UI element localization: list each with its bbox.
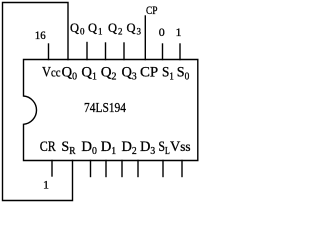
svg-text:D2: D2 xyxy=(122,139,137,157)
svg-text:CP: CP xyxy=(146,3,158,17)
pin Q2 stub xyxy=(105,43,107,60)
pin 1 CR stub xyxy=(51,161,53,177)
pin Q1 stub xyxy=(86,43,88,60)
pin 16 Vcc stub xyxy=(48,44,50,60)
svg-text:Q3: Q3 xyxy=(127,21,142,37)
svg-text:S0: S0 xyxy=(177,65,190,83)
wire feedback loop Q0 to SR xyxy=(3,3,73,201)
svg-text:Vcc: Vcc xyxy=(42,65,61,81)
svg-text:SR: SR xyxy=(61,139,76,157)
svg-text:D0: D0 xyxy=(81,139,97,157)
svg-text:S1: S1 xyxy=(162,65,174,83)
pin D1 stub xyxy=(105,161,107,177)
pin SL stub xyxy=(162,161,164,177)
wire CP clock input line xyxy=(144,16,146,60)
pin S0 stub xyxy=(179,44,181,60)
svg-text:1: 1 xyxy=(43,178,49,192)
svg-text:SL: SL xyxy=(158,139,170,157)
svg-text:CR: CR xyxy=(40,139,56,155)
pin Q3 stub xyxy=(123,43,125,60)
svg-text:D3: D3 xyxy=(140,139,155,157)
svg-text:CP: CP xyxy=(140,65,158,81)
svg-text:Q0: Q0 xyxy=(70,21,85,37)
svg-text:74LS194: 74LS194 xyxy=(84,101,126,116)
svg-text:Q3: Q3 xyxy=(122,65,137,83)
pin Vss stub xyxy=(181,161,183,177)
svg-text:D1: D1 xyxy=(101,139,117,157)
svg-text:Vss: Vss xyxy=(170,139,191,155)
svg-text:Q1: Q1 xyxy=(88,21,103,37)
pin D0 stub xyxy=(90,161,92,177)
svg-text:Q2: Q2 xyxy=(101,65,117,83)
svg-text:1: 1 xyxy=(176,25,182,39)
svg-text:Q0: Q0 xyxy=(62,65,78,83)
svg-text:16: 16 xyxy=(35,28,46,42)
pin S1 stub xyxy=(162,44,164,60)
pin D3 stub xyxy=(137,161,139,177)
pin D2 stub xyxy=(121,161,123,177)
IC U1 74LS194 body with notch xyxy=(24,60,198,161)
svg-text:Q2: Q2 xyxy=(108,21,123,37)
svg-text:Q1: Q1 xyxy=(81,65,97,83)
svg-text:0: 0 xyxy=(159,25,165,39)
